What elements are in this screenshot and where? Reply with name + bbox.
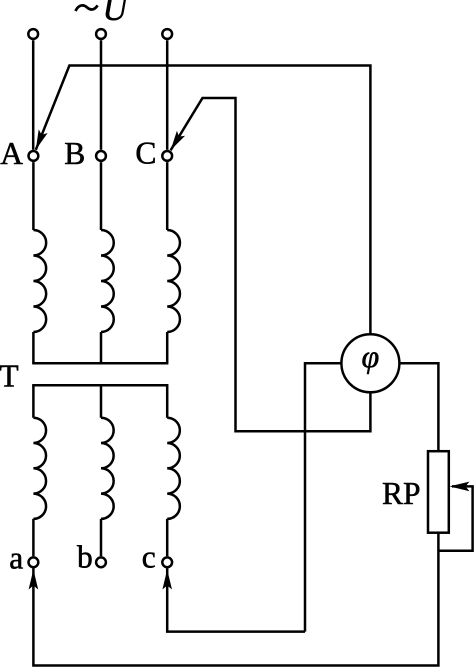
svg-text:a: a <box>9 541 23 576</box>
svg-text:c: c <box>142 540 156 575</box>
svg-text:B: B <box>64 136 85 171</box>
svg-text:U: U <box>103 0 130 28</box>
svg-text:RP: RP <box>382 476 421 511</box>
svg-text:T: T <box>0 359 19 394</box>
svg-text:φ: φ <box>362 338 380 374</box>
svg-text:b: b <box>77 540 93 575</box>
svg-text:C: C <box>135 136 156 171</box>
svg-text:A: A <box>0 136 23 171</box>
